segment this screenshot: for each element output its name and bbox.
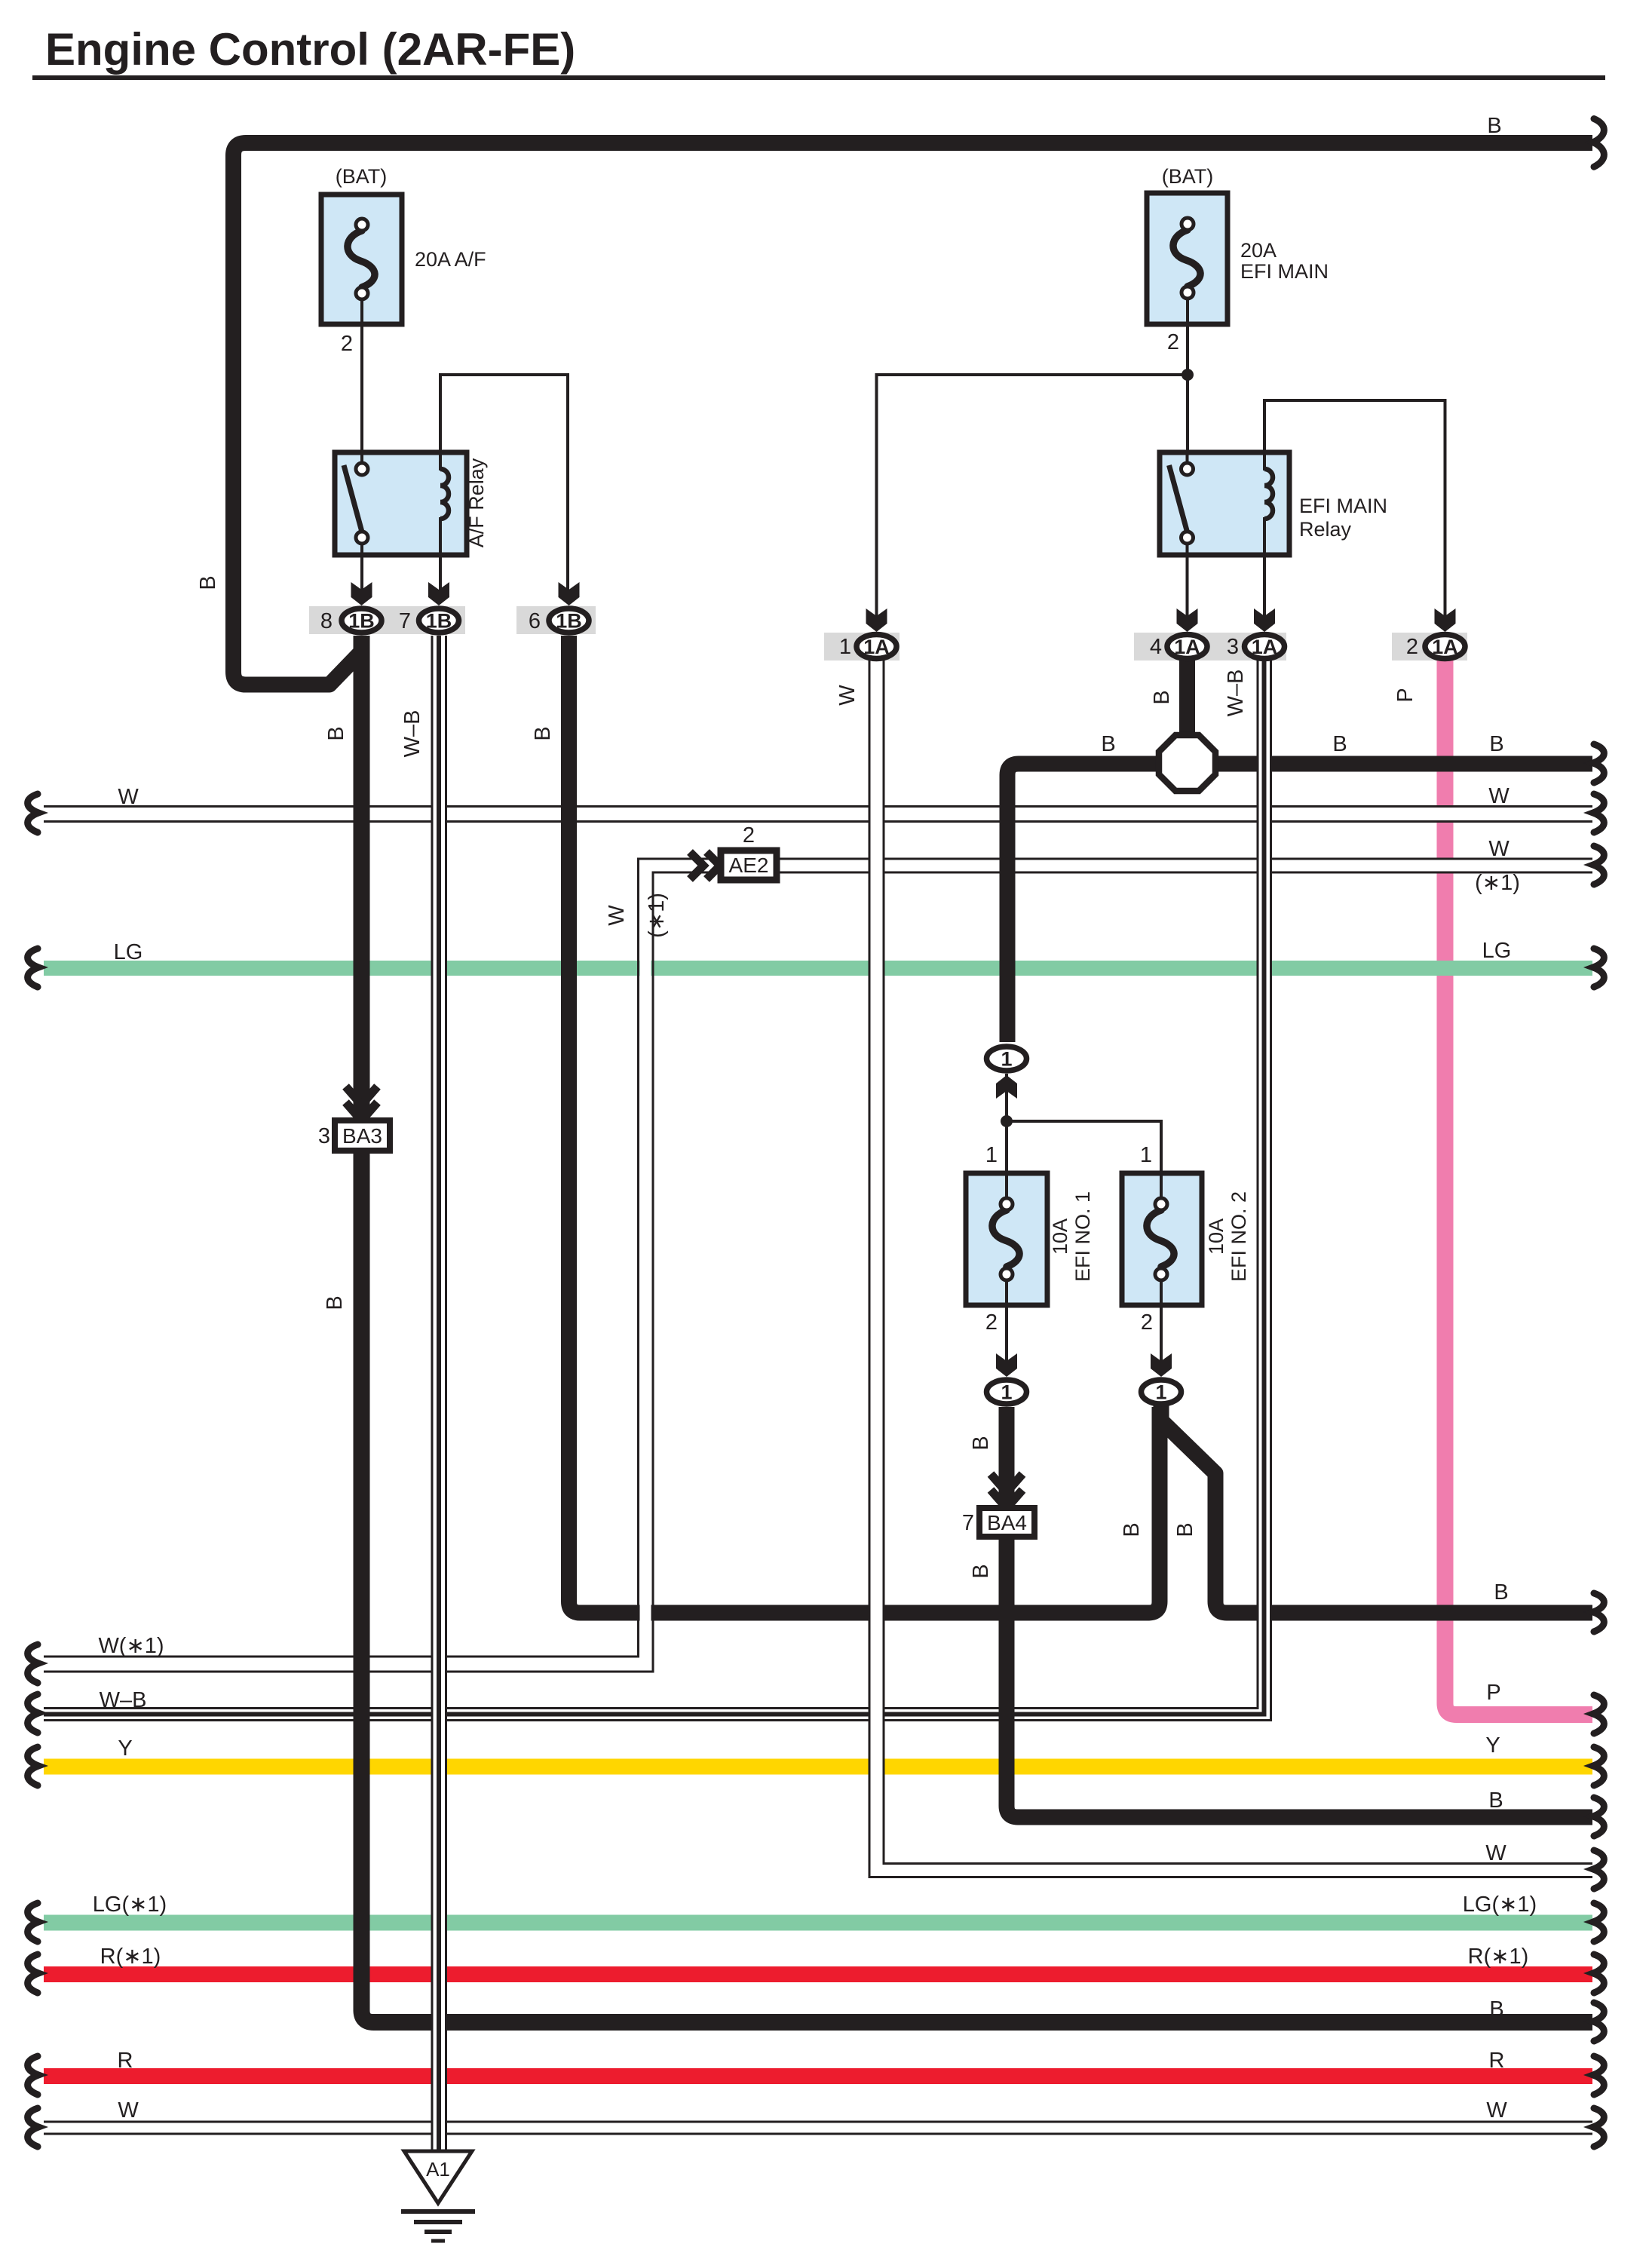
break symbol right of wire W(*1) <box>1593 846 1604 884</box>
svg-text:B: B <box>1120 1522 1144 1537</box>
arrow into pin 7 of 1B <box>428 582 449 605</box>
svg-text:W: W <box>1488 837 1509 861</box>
svg-text:1A: 1A <box>1174 636 1200 658</box>
wire B from EFI NO.1 output oval through BA4, corner right to break <box>1007 1407 1592 1817</box>
svg-text:Relay: Relay <box>1299 518 1352 541</box>
svg-text:W–B: W–B <box>400 710 424 758</box>
svg-text:2: 2 <box>985 1310 998 1335</box>
svg-text:4: 4 <box>1150 635 1162 659</box>
connector oval 1-1A <box>857 635 896 659</box>
svg-text:W: W <box>1486 2098 1507 2123</box>
double chevron into BA3 <box>346 1087 378 1120</box>
wire from EFI fuse input oval down to junction <box>1005 1074 1008 1173</box>
wire W horizontal pair bottom (white wire) <box>44 2122 1592 2134</box>
wire from EFI MAIN relay coil bottom to connector 3-1A <box>1263 520 1266 630</box>
svg-text:1B: 1B <box>348 610 375 633</box>
svg-text:R: R <box>118 2049 133 2073</box>
break symbol right of wire LG(*1) <box>1593 1903 1604 1942</box>
svg-text:8: 8 <box>320 609 333 633</box>
wire from A/F relay switch to connector 8-1B <box>360 543 363 603</box>
wire W horizontal pair upper (white wire) <box>44 807 1592 822</box>
oval 1 below EFI NO.2 fuse <box>1142 1380 1182 1404</box>
wire LG(*1) horizontal <box>44 1915 1592 1931</box>
wire R horizontal <box>44 2068 1592 2084</box>
wire Y horizontal <box>44 1759 1592 1775</box>
svg-text:P: P <box>1486 1681 1500 1705</box>
break symbol right of wire Y <box>1593 1747 1604 1785</box>
svg-text:1: 1 <box>985 1143 998 1167</box>
svg-text:B: B <box>1101 732 1115 756</box>
svg-text:R(∗1): R(∗1) <box>100 1945 161 1969</box>
svg-text:3: 3 <box>318 1124 330 1148</box>
svg-text:B: B <box>1489 732 1503 756</box>
break symbol right of wire W bottom <box>1593 2108 1604 2147</box>
fuse 20A EFI MAIN <box>1147 193 1228 324</box>
svg-text:W(∗1): W(∗1) <box>98 1634 164 1658</box>
svg-text:W: W <box>835 685 860 706</box>
svg-text:1: 1 <box>1001 1048 1012 1071</box>
wire from EFI MAIN relay coil top up right and down to connector 2-1A <box>1264 400 1445 630</box>
break symbol right of wire P <box>1593 1695 1604 1733</box>
svg-text:20A: 20A <box>1240 239 1277 262</box>
svg-text:B: B <box>969 1436 993 1450</box>
break symbol left of wire Y <box>28 1747 38 1785</box>
svg-text:Y: Y <box>1485 1733 1500 1758</box>
wire from EFI MAIN relay switch to connector 4-1A <box>1186 543 1189 630</box>
connector oval 8-1B <box>342 608 382 633</box>
svg-text:B: B <box>324 726 348 740</box>
wire branch from EFI MAIN fuse wire to connector 1-1A <box>877 375 1188 630</box>
break symbol right of wire B octagon run <box>1593 744 1604 783</box>
svg-text:B: B <box>1332 732 1347 756</box>
svg-text:7: 7 <box>399 609 411 633</box>
wire from EFI MAIN fuse pin 2 down to EFI MAIN relay switch <box>1186 297 1189 464</box>
svg-text:A1: A1 <box>426 2158 450 2181</box>
wire W white pair from connector 1-1A down, corner right to break <box>869 659 1592 1877</box>
connector band 1A (pin 1) <box>824 633 900 661</box>
svg-text:AE2: AE2 <box>729 854 769 877</box>
svg-text:EFI MAIN: EFI MAIN <box>1299 495 1387 517</box>
connector box AE2 with pin 2 <box>721 851 777 880</box>
svg-text:1A: 1A <box>863 636 890 658</box>
svg-text:LG(∗1): LG(∗1) <box>1463 1893 1537 1917</box>
wire B diagonal branch from EFI NO.2 output oval, down and right to break <box>1161 1405 1592 1613</box>
arrow into EFI NO.1 output oval <box>996 1353 1017 1377</box>
svg-text:BA4: BA4 <box>987 1511 1027 1534</box>
junction dot below EFI MAIN fuse <box>1182 369 1194 381</box>
svg-text:W–B: W–B <box>1224 670 1248 717</box>
svg-text:LG: LG <box>1482 939 1512 963</box>
break symbol right of wire B bottom <box>1593 2003 1604 2041</box>
svg-text:EFI NO. 2: EFI NO. 2 <box>1228 1191 1250 1282</box>
svg-text:(∗1): (∗1) <box>1475 871 1520 895</box>
oval 1 below EFI NO.1 fuse <box>987 1380 1027 1404</box>
svg-text:W: W <box>118 785 139 809</box>
break symbol left of wire LG(*1) <box>28 1903 38 1942</box>
svg-text:W–B: W–B <box>100 1688 147 1712</box>
svg-text:1: 1 <box>1001 1381 1012 1404</box>
svg-text:W: W <box>118 2098 139 2123</box>
connector oval 3-1A <box>1245 635 1285 659</box>
svg-text:2: 2 <box>1406 635 1418 659</box>
svg-text:(BAT): (BAT) <box>1162 165 1214 188</box>
svg-text:R: R <box>1489 2049 1505 2073</box>
svg-text:2: 2 <box>1167 330 1179 354</box>
svg-text:(∗1): (∗1) <box>645 893 669 938</box>
svg-text:Y: Y <box>118 1736 132 1761</box>
connector box BA3 <box>335 1120 390 1151</box>
wire from A/F relay coil top up right and down to connector 6-1B <box>440 375 568 603</box>
wire R(*1) horizontal <box>44 1966 1592 1982</box>
svg-text:6: 6 <box>529 609 541 633</box>
arrow into pin 2 of 1A <box>1435 608 1456 632</box>
oval 1 above EFI fuses <box>987 1047 1027 1071</box>
svg-text:1: 1 <box>1140 1143 1152 1167</box>
arrow into EFI NO.2 output oval <box>1151 1353 1172 1377</box>
arrow into pin 3 of 1A <box>1254 608 1275 632</box>
junction dot above EFI NO.1 and NO.2 fuses <box>1001 1115 1013 1127</box>
break symbol right of wire W pair <box>1593 794 1604 832</box>
fuse 10A EFI NO. 2 <box>1122 1173 1202 1305</box>
svg-text:2: 2 <box>1141 1310 1153 1335</box>
svg-text:7: 7 <box>962 1511 974 1535</box>
break symbol left of wire R(*1) <box>28 1954 38 1993</box>
break symbol left of wire W(*1) <box>28 1644 38 1683</box>
wire W-B striped from connector 7-1B down to ground A1 <box>432 636 446 2151</box>
svg-text:B: B <box>1487 114 1501 138</box>
wire B thick top run with left corner down to junction with 8-1B wire <box>234 143 1593 685</box>
octagon noise-filter junction <box>1159 735 1215 791</box>
svg-text:B: B <box>969 1564 993 1578</box>
svg-text:W: W <box>1488 784 1509 808</box>
connector oval 4-1A <box>1167 635 1207 659</box>
wire W-B striped from connector 3-1A down, corner left to break <box>44 659 1271 1721</box>
svg-text:LG: LG <box>114 940 143 964</box>
fuse 10A EFI NO. 1 <box>966 1173 1047 1305</box>
break symbol left of wire W pair <box>28 794 38 832</box>
wire from A/F fuse pin 2 down to A/F relay switch <box>360 297 363 464</box>
break symbol left of wire W bottom <box>28 2108 38 2147</box>
svg-text:A/F Relay: A/F Relay <box>465 458 488 547</box>
break symbol right of wire R <box>1593 2056 1604 2095</box>
svg-text:10A: 10A <box>1205 1218 1228 1255</box>
connector oval 2-1A <box>1425 635 1465 659</box>
fuse 20A A/F <box>321 195 402 324</box>
wire P pink from connector 2-1A down and right to break <box>1445 659 1593 1715</box>
arrow up into EFI fuse input oval <box>996 1075 1017 1099</box>
wire B from connector 8-1B down through BA3, corner right to break <box>362 636 1593 2022</box>
svg-text:B: B <box>196 575 220 590</box>
svg-text:(BAT): (BAT) <box>336 165 388 188</box>
svg-text:B: B <box>1150 690 1174 704</box>
svg-text:B: B <box>1494 1580 1508 1605</box>
svg-text:1A: 1A <box>1252 636 1278 658</box>
svg-text:EFI MAIN: EFI MAIN <box>1240 260 1329 283</box>
svg-text:B: B <box>323 1295 347 1310</box>
svg-text:10A: 10A <box>1049 1218 1071 1255</box>
wire from A/F relay coil bottom to connector 7-1B <box>439 520 442 603</box>
svg-text:3: 3 <box>1227 635 1239 659</box>
break symbol left of wire W-B <box>28 1694 38 1733</box>
connector oval 7-1B <box>419 608 459 633</box>
wire branch from junction right to EFI NO.2 fuse pin 1 <box>1007 1121 1161 1173</box>
arrow into pin 4 of 1A <box>1177 608 1198 632</box>
svg-text:B: B <box>1489 1997 1503 2021</box>
svg-text:1: 1 <box>1155 1381 1166 1404</box>
svg-text:W: W <box>605 905 629 926</box>
svg-text:EFI NO. 1: EFI NO. 1 <box>1071 1191 1094 1282</box>
break symbol right of wire B lower <box>1593 1798 1604 1836</box>
svg-text:20A A/F: 20A A/F <box>415 248 486 271</box>
connector band 1B right (pin 6) <box>516 606 596 634</box>
break symbol right of wire B mid <box>1593 1593 1604 1632</box>
double chevron into BA4 <box>991 1474 1022 1508</box>
svg-text:R(∗1): R(∗1) <box>1468 1945 1529 1969</box>
svg-text:W: W <box>1485 1841 1506 1865</box>
svg-text:1A: 1A <box>1432 636 1458 658</box>
svg-text:B: B <box>531 726 555 740</box>
svg-text:2: 2 <box>743 823 755 847</box>
connector oval 6-1B <box>549 608 589 633</box>
break symbol right of wire LG <box>1593 949 1604 987</box>
relay A/F Relay <box>335 452 467 555</box>
wire from EFI NO.1 fuse pin 2 to output oval <box>1005 1305 1008 1375</box>
svg-text:1B: 1B <box>426 610 452 633</box>
connector band 1A (pins 4 and 3) <box>1134 633 1286 661</box>
wire B thick from octagon right to break <box>1212 756 1592 772</box>
break symbol right of wire W lower <box>1593 1850 1604 1889</box>
break symbol left of wire LG <box>28 949 38 987</box>
connector box BA4 <box>979 1508 1034 1537</box>
arrow into pin 8 of 1B <box>351 582 372 605</box>
wire B thick from octagon left, corner down to EFI fuse input oval 1 <box>1007 764 1161 1042</box>
svg-text:Engine Control (2AR-FE): Engine Control (2AR-FE) <box>45 24 575 75</box>
wire W(*1) white pair: left break up and right to AE2 / right break <box>44 859 1592 1672</box>
title underline <box>32 75 1605 80</box>
ground symbol A1 <box>401 2151 475 2241</box>
arrow into pin 1 of 1A <box>866 608 887 632</box>
svg-text:2: 2 <box>341 332 353 356</box>
svg-text:BA3: BA3 <box>342 1124 382 1148</box>
break symbol right of wire B top <box>1593 119 1604 167</box>
arrow into pin 6 of 1B <box>559 582 580 605</box>
svg-text:P: P <box>1393 688 1418 702</box>
svg-text:1: 1 <box>839 635 851 659</box>
wire B thick from connector 4-1A down to octagon junction <box>1179 659 1195 740</box>
wire B from connector 6-1B down, corner right, up to EFI NO.1 output oval <box>569 636 1160 1613</box>
break symbol right of wire R(*1) <box>1593 1954 1604 1993</box>
svg-text:LG(∗1): LG(∗1) <box>93 1893 167 1917</box>
svg-text:1B: 1B <box>556 610 582 633</box>
break symbol left of wire R <box>28 2056 38 2095</box>
connector band 1B left (pins 8 and 7) <box>309 606 465 634</box>
connector band 1A (pin 2) <box>1392 633 1467 661</box>
wire from EFI NO.2 fuse pin 2 to output oval <box>1160 1305 1163 1375</box>
svg-text:B: B <box>1488 1788 1503 1813</box>
double chevron into AE2 <box>690 852 720 879</box>
wire LG horizontal <box>44 961 1592 976</box>
svg-text:B: B <box>1173 1522 1197 1537</box>
relay EFI MAIN Relay <box>1160 452 1289 555</box>
